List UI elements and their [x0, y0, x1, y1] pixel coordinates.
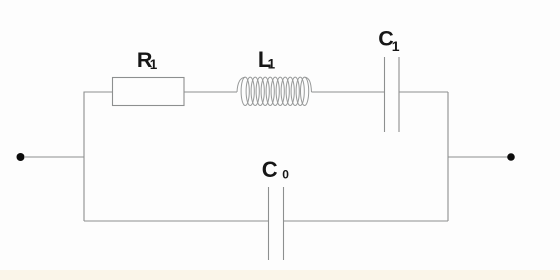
wire: right vertical branch: [447, 92, 449, 221]
inductor L1 (coil): [237, 77, 312, 105]
svg-text:1: 1: [268, 57, 276, 72]
svg-text:1: 1: [392, 38, 400, 54]
wire: C1 to top-right corner: [399, 91, 448, 93]
svg-text:0: 0: [282, 167, 289, 181]
bottom cream strip (decorative): [0, 270, 560, 280]
right terminal node dot: [507, 153, 515, 161]
capacitor C0 plates: [269, 187, 284, 260]
wire: L1 to C1: [312, 91, 385, 93]
capacitor C1 plates: [385, 57, 400, 132]
wire: bottom branch left segment: [84, 220, 269, 222]
wire: right junction to right terminal: [448, 156, 508, 158]
svg-text:C: C: [262, 157, 278, 182]
resistor R1: [113, 78, 185, 106]
wire: left terminal to left junction: [24, 156, 84, 158]
svg-text:1: 1: [150, 57, 158, 72]
wire: R1 to L1: [184, 91, 237, 93]
wire: left vertical branch: [84, 92, 112, 221]
wire: bottom branch right segment: [284, 220, 449, 222]
left terminal node dot: [17, 153, 25, 161]
